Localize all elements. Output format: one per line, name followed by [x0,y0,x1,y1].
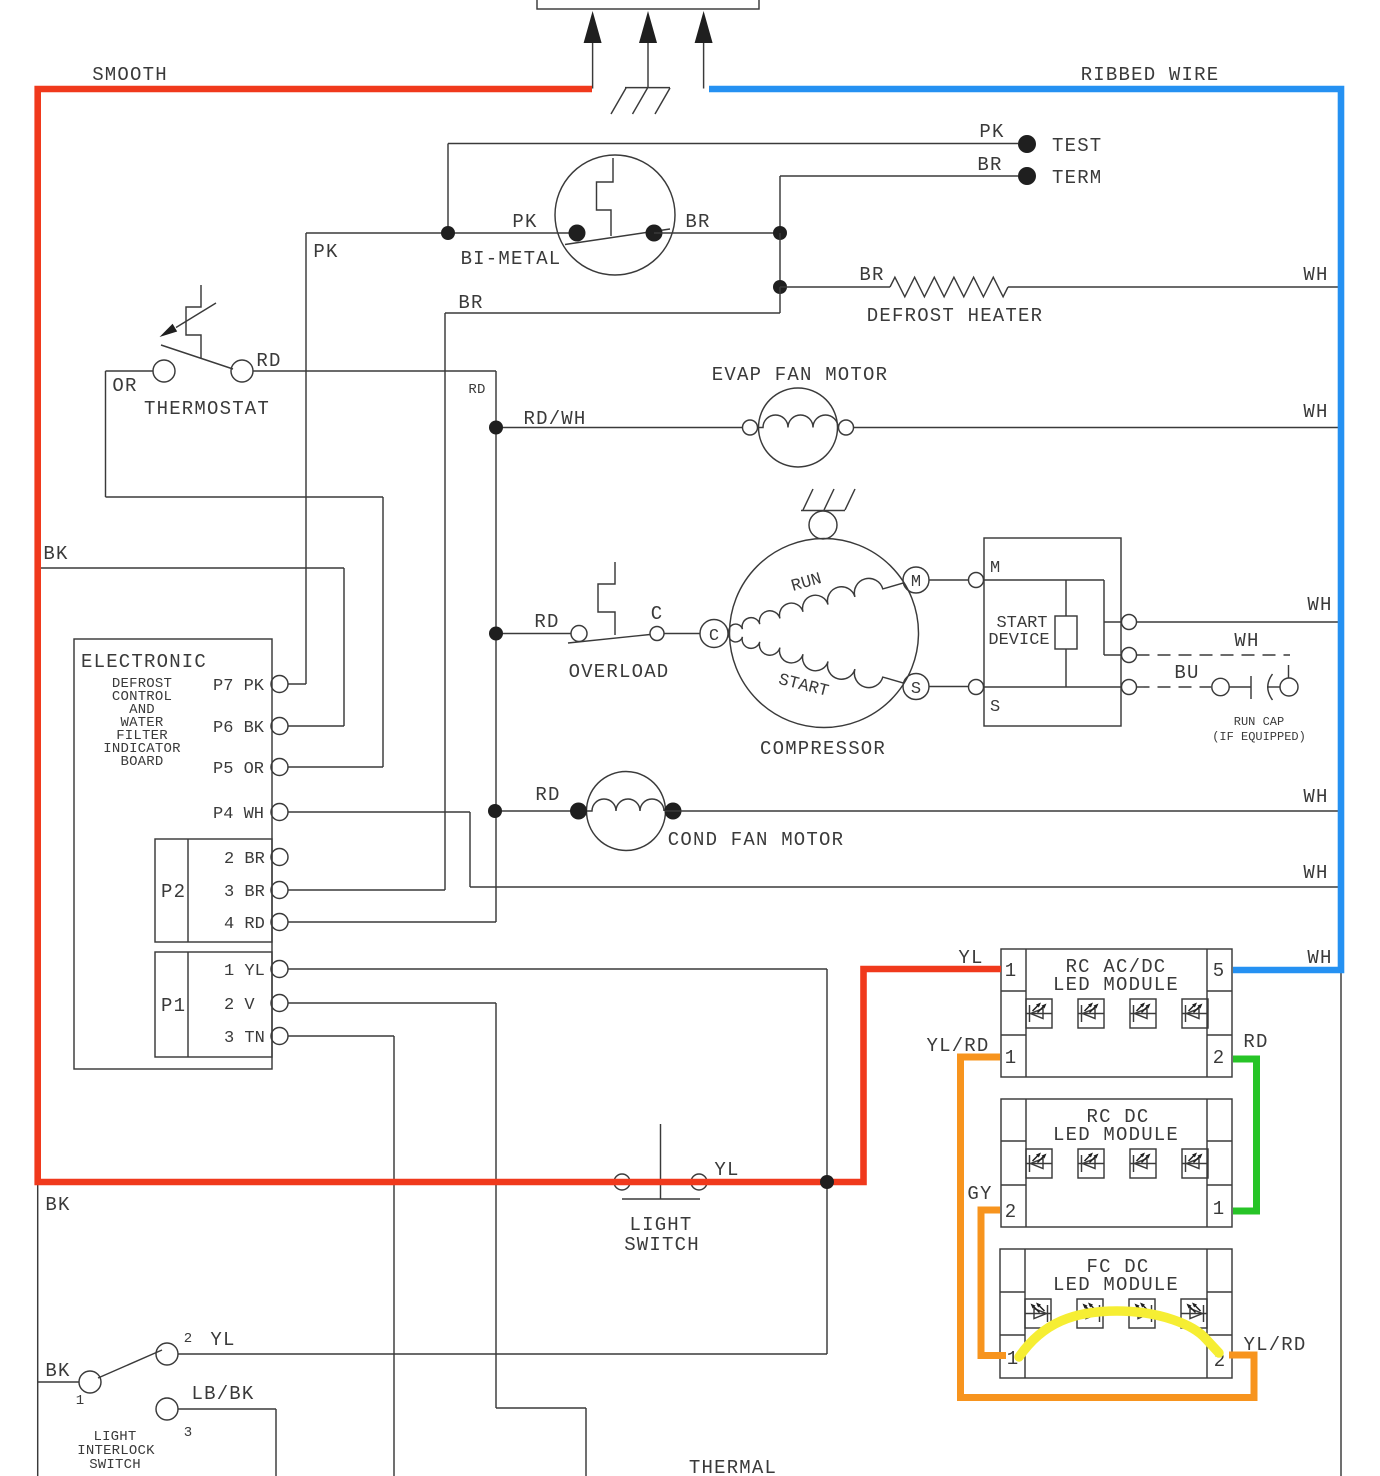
svg-text:BR: BR [458,292,483,314]
svg-text:WH: WH [1307,594,1332,616]
plug blade pin 3 (neutral) [695,11,713,89]
svg-text:RIBBED WIRE: RIBBED WIRE [1081,64,1220,86]
svg-text:WH: WH [1303,264,1328,286]
cond fan motor [570,772,682,851]
svg-text:LED MODULE: LED MODULE [1053,1124,1179,1146]
wire yellow jumper across FC module [1019,1311,1219,1357]
svg-text:3: 3 [184,1425,193,1441]
RC AC/DC LED module [1001,949,1232,1077]
svg-text:S: S [911,680,921,699]
svg-text:BR: BR [685,211,710,233]
LED D4 (RC AC/DC) [1182,999,1208,1028]
svg-text:OR: OR [112,375,137,397]
LED D1 (RC AC/DC) [1026,999,1052,1028]
svg-text:WH: WH [1234,630,1259,652]
wire WH dashed (run cap) [1137,654,1291,656]
wire WH board pin P4 to neutral [288,812,1338,887]
svg-text:SWITCH: SWITCH [624,1234,700,1256]
board pin P7PK [213,676,288,697]
svg-text:THERMOSTAT: THERMOSTAT [144,398,270,420]
light switch [614,1124,707,1199]
svg-text:BI-METAL: BI-METAL [461,248,562,270]
wire V board pin2 to thermal fuse [288,1003,586,1476]
LED D2 (RC AC/DC) [1078,999,1104,1028]
svg-text:WH: WH [1303,862,1328,884]
wire BK vertical bottom [37,1182,39,1476]
wire BR bi-metal to junction [654,232,780,234]
wire BU dashed to run cap [1137,686,1212,688]
svg-text:P6 BK: P6 BK [213,719,265,738]
wire RD/WH to evap fan motor [496,427,742,429]
thermostat [153,285,253,382]
wire PK from junction to bi-metal [306,232,577,234]
svg-text:(IF EQUIPPED): (IF EQUIPPED) [1212,730,1306,744]
wire YL interlock to light switch junction [178,1353,827,1355]
bi-metal defrost thermostat [555,155,675,275]
overload protector [568,562,664,643]
svg-text:5: 5 [1213,960,1226,982]
svg-text:DEFROST HEATER: DEFROST HEATER [867,305,1043,327]
svg-text:C: C [709,627,719,646]
ground symbol at compressor [801,489,855,511]
wire RD main vertical down to pin 4RD [288,371,496,922]
wire green RD: module1 pin2 to module2 pin1 [1233,1059,1257,1211]
svg-text:YL: YL [714,1159,739,1181]
svg-text:LB/BK: LB/BK [191,1383,254,1405]
svg-text:WH: WH [1303,786,1328,808]
wire RD to overload [496,633,571,635]
junction YL light switch [820,1175,834,1189]
svg-text:RD: RD [256,350,281,372]
wire RD thermostat to main RD vertical [253,370,496,372]
wire PK to TEST terminal [448,144,1018,234]
start device [969,538,1137,726]
svg-text:1: 1 [76,1393,85,1409]
svg-text:3 BR: 3 BR [224,883,265,902]
svg-text:SWITCH: SWITCH [89,1457,141,1473]
wire RD to cond fan motor [496,810,587,812]
svg-text:WH: WH [1303,401,1328,423]
board pin 1YL [224,961,288,982]
svg-text:2: 2 [184,1331,193,1347]
wire compressor M to start device [929,579,969,581]
svg-text:RD: RD [535,784,560,806]
run capacitor [1212,665,1298,700]
wire TN board pin3 down [288,1036,394,1476]
svg-text:BOARD: BOARD [120,754,163,770]
svg-text:4 RD: 4 RD [224,915,265,934]
board pin 3BR [224,882,288,903]
connector P1 [155,952,272,1057]
svg-text:BR: BR [977,154,1002,176]
wire red smooth-line highlight: plug pin1 to light switch to RC AC/DC module pin 1 [38,89,1001,1182]
svg-text:3 TN: 3 TN [224,1029,265,1048]
resistor defrost heater [890,277,1008,297]
svg-text:S: S [990,698,1000,717]
wire BR node down and across to board pin 3BR [288,287,780,890]
svg-text:YL: YL [210,1329,235,1351]
power plug connector box [537,0,759,9]
svg-text:LIGHT: LIGHT [629,1214,692,1236]
FC DC LED module [1000,1249,1232,1378]
svg-text:P2: P2 [161,881,186,903]
svg-text:LED MODULE: LED MODULE [1053,974,1179,996]
wire BR down to defrost heater node [779,233,781,287]
svg-text:RD/WH: RD/WH [523,408,586,430]
LED D3 (FC DC) [1129,1299,1155,1328]
svg-text:GY: GY [967,1183,992,1205]
svg-text:P4 WH: P4 WH [213,805,264,824]
svg-text:1: 1 [1213,1198,1226,1220]
svg-text:THERMAL: THERMAL [689,1457,777,1476]
svg-text:BU: BU [1174,662,1199,684]
wire YL board pin1 to light switch junction [288,969,827,1354]
wire LB/BK from interlock pin3 [178,1409,276,1476]
ground symbol at plug [611,88,670,114]
svg-text:WH: WH [1307,947,1332,969]
LED D1 (FC DC) [1025,1299,1051,1328]
svg-text:2 V: 2 V [224,996,255,1015]
wire orange GY: module2 pin2 to module3 pin1 [981,1210,1006,1356]
term terminal dot [1018,167,1036,185]
svg-text:TEST: TEST [1052,135,1102,157]
evap fan motor [743,388,854,467]
junction PK/TEST [441,226,455,240]
svg-text:SMOOTH: SMOOTH [92,64,168,86]
wire PK vertical to board pin P7 [288,233,306,684]
board pin P5OR [213,759,288,780]
wire WH neutral vertical continuation to bottom [1340,973,1342,1476]
junction RD overload [489,627,503,641]
svg-text:RD: RD [468,382,485,398]
wire light switch row [38,1181,864,1183]
svg-text:C: C [651,603,664,625]
svg-text:OVERLOAD: OVERLOAD [569,661,670,683]
wire OR thermostat to board pin P5 [106,371,384,767]
svg-text:BK: BK [45,1194,70,1216]
wire BR to TERM terminal [780,176,1018,233]
svg-text:RUN CAP: RUN CAP [1234,715,1284,729]
svg-text:BR: BR [859,264,884,286]
svg-text:P7 PK: P7 PK [213,677,265,696]
LED D2 (FC DC) [1077,1299,1103,1328]
junction BR/TERM [773,226,787,240]
svg-text:LED MODULE: LED MODULE [1053,1274,1179,1296]
svg-text:P1: P1 [161,995,186,1017]
wire WH start device to neutral [1137,621,1339,623]
svg-text:DEVICE: DEVICE [988,631,1049,650]
compressor [700,539,929,728]
wire WH cond fan to neutral [665,810,1338,812]
wire compressor S to start device [929,686,969,688]
wire orange YL/RD loop: module1 pin1(bottom) to module3 pin2 [961,1057,1255,1398]
wire WH defrost heater to neutral [1008,286,1338,288]
svg-text:1: 1 [1005,1047,1018,1069]
connector P2 [155,839,272,942]
junction BR defrost [773,280,787,294]
svg-text:PK: PK [979,121,1004,143]
svg-text:RD: RD [1243,1031,1268,1053]
plug blade pin 2 (ground) [639,11,657,88]
LED D4 (RC DC) [1182,1149,1208,1178]
LED D3 (RC DC) [1130,1149,1156,1178]
compressor shell ground circle [809,511,837,539]
svg-text:TERM: TERM [1052,167,1102,189]
svg-text:BK: BK [45,1360,70,1382]
svg-text:P5 OR: P5 OR [213,760,264,779]
board pin 2V [224,995,288,1016]
junction RD cond fan [488,804,502,818]
board pin 3TN [224,1028,288,1049]
light interlock switch [79,1343,178,1420]
junction RD/WH [489,421,503,435]
board pin 2BR [224,849,288,870]
svg-text:2: 2 [1213,1047,1226,1069]
wire WH evap fan to neutral [854,427,1339,429]
svg-text:COND FAN MOTOR: COND FAN MOTOR [668,829,844,851]
svg-text:PK: PK [512,211,537,233]
RC DC LED module [1001,1099,1232,1227]
plug blade pin 1 (line) [584,11,602,89]
board pin P6BK [213,718,288,739]
svg-text:COMPRESSOR: COMPRESSOR [760,738,886,760]
wire BK to board pin P6 [38,568,344,726]
svg-text:EVAP FAN MOTOR: EVAP FAN MOTOR [712,364,888,386]
svg-text:M: M [911,573,921,592]
LED D1 (RC DC) [1026,1149,1052,1178]
wire BK to interlock [38,1381,79,1383]
wire BR into defrost heater [780,286,890,288]
svg-text:1 YL: 1 YL [224,962,265,981]
electronic defrost control board [74,639,272,1069]
svg-text:ELECTRONIC: ELECTRONIC [81,651,207,673]
svg-text:1: 1 [1005,960,1018,982]
svg-text:BK: BK [43,543,68,565]
LED D2 (RC DC) [1078,1149,1104,1178]
svg-text:M: M [990,559,1000,578]
board pin 4RD [224,914,288,935]
svg-text:2: 2 [1005,1201,1018,1223]
svg-text:RD: RD [534,611,559,633]
wire overload to compressor C [664,633,700,635]
LED D4 (FC DC) [1181,1299,1207,1328]
svg-text:2 BR: 2 BR [224,850,265,869]
LED D3 (RC AC/DC) [1130,999,1156,1028]
test terminal dot [1018,135,1036,153]
wire blue ribbed-line highlight: plug pin3 to RC AC/DC module pin 5 [709,89,1341,970]
board pin P4WH [213,804,288,825]
svg-text:PK: PK [313,241,338,263]
